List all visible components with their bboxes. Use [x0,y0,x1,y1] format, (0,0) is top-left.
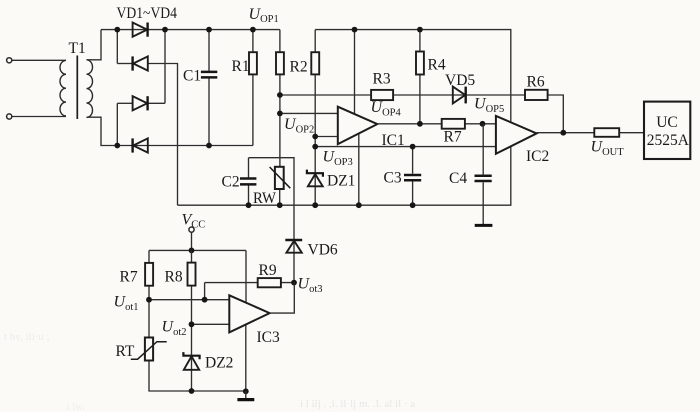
node dot Uot1 left [146,297,152,303]
wire top rail right section [315,30,511,123]
svg-text:· i lw.: · i lw. [60,401,86,412]
capacitor C2 [240,158,256,206]
op-amp IC3 [229,295,269,332]
svg-text:R9: R9 [259,262,277,279]
capacitor C3 [404,147,421,206]
input terminal top [7,58,12,63]
svg-text:RW: RW [253,190,276,207]
node dot AC1 top rail [114,27,120,33]
wire IC2 lower stub to bottom rail and bottom rail to VD2 leg [178,146,511,205]
node dot Uot3 [291,280,297,286]
resistor R6 [525,90,548,100]
wire secondary top to rail [87,30,102,60]
wire IC3 output [270,283,295,314]
wire bridge vertical AC2 [116,103,118,145]
node dot Uot2 [189,321,195,327]
svg-text:IC3: IC3 [257,329,281,346]
resistor R9 [258,278,281,287]
resistor R2 [276,30,284,167]
resistor R1 [249,30,257,146]
svg-text:RT: RT [116,343,135,360]
node dot IC2 plus input / C4 [480,121,486,127]
svg-text:R1: R1 [232,58,250,75]
node dot ground junction [243,388,249,394]
resistor below R2 label (on IC1 input leg) [311,30,319,172]
capacitor C4 [475,124,492,224]
node dot IC1 V+ on rail [352,27,358,33]
capacitor C1 [201,30,217,146]
svg-text:C3: C3 [384,170,402,187]
wire R9 line corner down to Uot1 [204,283,206,300]
transformer T1 core [76,56,78,120]
wire IC1 V+ stub [354,30,356,114]
node dot R1 top [250,27,256,33]
wire VCC horizontal line [149,249,246,251]
svg-text:i l ilj . ,i. il·lj m. .l. al: i l ilj . ,i. il·lj m. .l. al il · a [300,398,415,410]
wire secondary bottom lead [87,117,253,145]
node dot VCC junction [189,248,195,254]
node dot on leg at y146.6 [312,144,318,150]
svg-text:t hv, ili·u ;: t hv, ili·u ; [4,331,50,343]
transformer T1 primary winding [60,60,66,116]
node dot R4 bottom on UOP4 line [417,121,423,127]
op-amp IC1 [338,107,378,144]
svg-text:2525A: 2525A [647,132,690,149]
svg-text:R3: R3 [373,71,391,88]
wire IC1 V- stub to bottom rail [358,134,360,206]
svg-text:VD6: VD6 [308,242,338,259]
wire feedback line R3/VD5/R6 (y=95) [280,95,563,133]
diode VD4 [133,138,148,152]
variable resistor RW [270,167,291,205]
node dot Uot1 right [202,297,208,303]
node dot C2 bottom [246,202,252,208]
input terminal bottom [7,114,12,119]
wire Uot1 line [149,299,229,301]
wire IC3 V- stub to ground [245,325,247,391]
wire VD3 left lead [117,102,132,104]
wire C2 top / box top to VD6 leg [249,158,295,240]
svg-text:DZ1: DZ1 [327,173,355,190]
svg-text:C4: C4 [449,170,467,187]
resistor R8 [188,250,196,355]
node dot RW bottom [277,202,283,208]
resistor R7 (top) [442,119,465,129]
diode VD3 [133,96,148,110]
svg-text:R7: R7 [444,128,462,145]
wire VD2 left lead [117,63,133,65]
scan ghost marks (decorative) [4,331,415,412]
node dot DZ2 bottom [189,388,195,394]
op-amp IC2 [496,116,537,154]
node dot IC2 output / R6 [560,130,566,136]
node dot DZ1 bottom [312,202,318,208]
wire Uot2 line [192,323,230,325]
svg-text:R6: R6 [527,74,545,91]
node dot AC2 bottom [114,143,120,149]
svg-text:R4: R4 [428,57,446,74]
resistor R3 [371,90,393,100]
terminal VCC [189,227,194,250]
diode VD5 [453,87,466,104]
svg-text:R2: R2 [290,59,308,76]
node dot DC+ top rail [162,27,168,33]
svg-text:VD5: VD5 [445,72,475,89]
series box on output (UOUT) [594,128,619,137]
svg-text:C1: C1 [183,68,201,85]
block UC2525A [644,102,690,159]
wire VD6 leg below symbol down to Uot3 node [293,240,295,283]
wire VD2 anode down to bottom rail [148,64,178,206]
node dot C1 top [206,27,212,33]
wire top rail (UOP1 net) [101,29,280,31]
svg-text:UC: UC [656,114,678,131]
wire IC2 output [537,132,595,134]
wire left leg R7/RT [149,250,246,391]
wire IC1 plus input line [280,112,338,114]
diode VD2 [133,56,148,70]
diode VD1 [133,23,148,37]
wire bridge vertical AC1 [116,30,118,64]
node dot IC1 V- on bottom rail [356,202,362,208]
svg-text:R8: R8 [165,269,183,286]
svg-text:IC2: IC2 [526,148,549,165]
wire IC1 output line UOP4 [377,123,496,125]
ground symbol bottom [237,391,254,399]
thermistor RT [131,338,167,361]
svg-text:C2: C2 [222,173,240,190]
wire IC3 V+ stub [245,250,247,302]
node dot IC1 plus input [277,111,283,117]
node dot C1 bottom [206,143,212,149]
resistor R4 [416,30,424,124]
node dot R3 line left [277,92,283,98]
wire R9 line [205,282,294,284]
wire VD3 right lead [148,102,165,104]
wire output to UC box [619,132,644,134]
wire IC1 minus input line [315,136,338,138]
diode VD6 [285,240,302,253]
node dot C3 bottom [410,202,416,208]
node dot C3 top [410,144,416,150]
node dot IC1 minus input [312,134,318,140]
node dot R4 top [417,27,423,33]
resistor R7 (bottom) [145,263,153,286]
wire bridge vertical cathodes [164,30,166,104]
svg-text:T1: T1 [69,40,86,57]
zener DZ1 [307,170,323,206]
wire [12,59,66,61]
svg-text:IC1: IC1 [382,132,405,149]
svg-text:R7: R7 [120,269,138,286]
transformer T1 secondary winding [87,60,93,118]
zener DZ2 [183,352,199,391]
svg-text:VD1~VD4: VD1~VD4 [117,5,178,22]
svg-text:DZ2: DZ2 [205,355,233,372]
wire IC1-inv to IC2-inv line (y=146.6) [315,146,496,148]
wire [12,116,66,118]
ground symbol under C4 [475,224,493,227]
